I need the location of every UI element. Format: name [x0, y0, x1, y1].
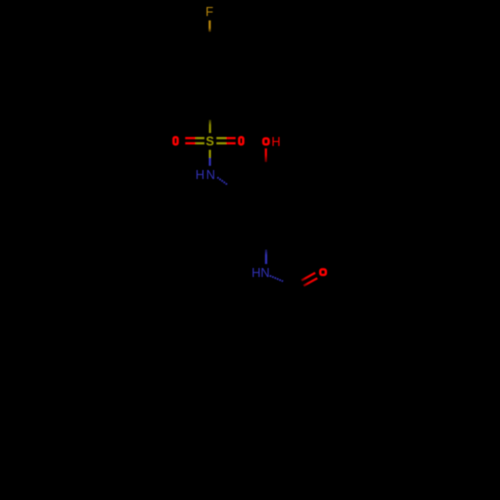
- svg-text:S: S: [206, 135, 214, 149]
- svg-text:N: N: [206, 168, 215, 182]
- svg-text:H: H: [271, 135, 280, 149]
- svg-text:H: H: [195, 168, 204, 182]
- svg-text:H: H: [252, 266, 261, 280]
- svg-text:F: F: [205, 4, 213, 19]
- svg-text:N: N: [261, 266, 270, 280]
